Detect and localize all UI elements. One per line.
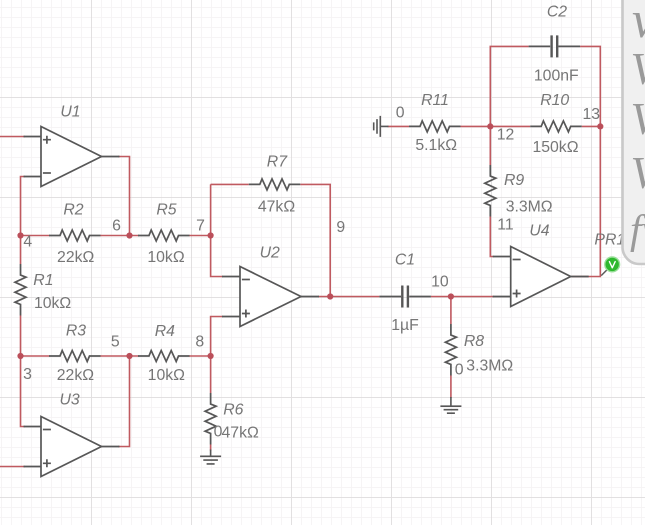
wire R4 to node 8 bbox=[189, 355, 211, 357]
svg-text:C1: C1 bbox=[395, 251, 415, 268]
junction node 7 bbox=[208, 232, 214, 238]
wire R6 to ground bbox=[210, 445, 212, 451]
wire ground to R11 bbox=[388, 125, 410, 127]
wire U3 output up to node 5 bbox=[118, 356, 130, 447]
wire U1 - input down to R1 top through node 4 bbox=[21, 177, 26, 265]
junction node 8 bbox=[208, 353, 214, 359]
svg-text:R1: R1 bbox=[33, 272, 53, 289]
svg-text:U2: U2 bbox=[260, 245, 280, 262]
op-amp U2 bbox=[222, 267, 319, 327]
wire R1 bottom to node 3 and down to U3 - input bbox=[21, 316, 26, 427]
wire R2 to node 6 to R5 bbox=[100, 235, 139, 237]
svg-text:8: 8 bbox=[195, 334, 204, 351]
resistor R1 bbox=[15, 264, 26, 316]
resistor R2 bbox=[49, 230, 101, 241]
svg-text:C2: C2 bbox=[547, 4, 567, 21]
svg-text:22kΩ: 22kΩ bbox=[57, 367, 94, 384]
svg-text:R10: R10 bbox=[540, 92, 569, 109]
resistor R9 bbox=[485, 165, 496, 217]
wire R5 to node 7 bbox=[189, 235, 211, 237]
svg-text:U3: U3 bbox=[59, 392, 79, 409]
ground below R8 bbox=[440, 397, 461, 413]
svg-text:22kΩ: 22kΩ bbox=[57, 249, 94, 266]
svg-text:5: 5 bbox=[111, 334, 120, 351]
capacitor C1 bbox=[379, 286, 431, 308]
svg-text:1µF: 1µF bbox=[391, 317, 419, 334]
wire node 12 up to C2 bbox=[490, 46, 528, 126]
junction node 6 bbox=[126, 232, 132, 238]
svg-text:R5: R5 bbox=[156, 201, 176, 218]
resistor R8 bbox=[445, 324, 456, 376]
svg-text:11: 11 bbox=[497, 217, 514, 234]
wire C2 to node 13 bbox=[580, 46, 600, 126]
wire R8 to ground bbox=[450, 376, 452, 399]
wire node 7 vertical down to U2 - input bbox=[211, 184, 223, 276]
svg-text:U4: U4 bbox=[529, 222, 549, 239]
svg-text:R2: R2 bbox=[63, 201, 83, 218]
svg-text:R4: R4 bbox=[155, 323, 175, 340]
svg-text:R7: R7 bbox=[267, 154, 288, 171]
ground at R11 input bbox=[374, 116, 389, 137]
wire R9 to U4 - input bbox=[490, 217, 493, 257]
wire R7 to node 9 vertical down to U2 output bbox=[300, 184, 330, 296]
svg-text:4: 4 bbox=[23, 233, 32, 250]
wire node 13 down to U4 output bbox=[572, 126, 600, 276]
op-amp U1 bbox=[24, 127, 120, 187]
side panel bbox=[623, 0, 645, 264]
ground below R6 bbox=[200, 450, 221, 464]
wire to U3 + input (left edge) bbox=[0, 466, 25, 468]
svg-text:100nF: 100nF bbox=[534, 68, 579, 85]
resistor R10 bbox=[530, 121, 582, 132]
op-amp U4 bbox=[493, 247, 589, 307]
svg-text:10kΩ: 10kΩ bbox=[147, 249, 184, 266]
svg-text:10: 10 bbox=[431, 274, 449, 291]
svg-text:6: 6 bbox=[112, 218, 121, 235]
svg-text:13: 13 bbox=[583, 106, 601, 123]
wire node 3 to R3 bbox=[21, 355, 51, 357]
svg-text:0: 0 bbox=[396, 105, 405, 122]
svg-text:10kΩ: 10kΩ bbox=[148, 367, 185, 384]
svg-text:R11: R11 bbox=[421, 92, 449, 109]
resistor R5 bbox=[138, 230, 190, 241]
wire R11 to node 12 bbox=[461, 125, 491, 127]
junction node 12 bbox=[487, 123, 493, 129]
junction node 10 bbox=[448, 293, 454, 299]
wire R10 to node 13 bbox=[582, 125, 601, 127]
junction node 4 bbox=[17, 232, 23, 238]
probe PR1 bbox=[601, 257, 619, 276]
svg-text:47kΩ: 47kΩ bbox=[222, 425, 259, 442]
svg-text:0: 0 bbox=[455, 361, 464, 378]
svg-text:R3: R3 bbox=[66, 322, 86, 339]
wire node 8 up to U2 + input bbox=[211, 317, 223, 357]
svg-text:9: 9 bbox=[336, 219, 345, 236]
resistor R7 bbox=[249, 179, 300, 190]
svg-text:150kΩ: 150kΩ bbox=[532, 139, 578, 156]
svg-text:V: V bbox=[631, 94, 645, 144]
svg-text:10kΩ: 10kΩ bbox=[34, 295, 71, 312]
wire U1 output to node 6 bbox=[118, 157, 130, 236]
svg-text:7: 7 bbox=[196, 218, 205, 235]
wire node 10 down to R8 bbox=[450, 297, 452, 325]
junction node 5 bbox=[126, 353, 132, 359]
wire node 8 down to R6 bbox=[210, 356, 212, 393]
wire R3 to node 5 to R4 bbox=[100, 355, 139, 357]
resistor R11 bbox=[409, 121, 461, 132]
svg-text:v: v bbox=[632, 0, 645, 49]
wire node 4 to R2 bbox=[21, 235, 51, 237]
resistor R4 bbox=[138, 351, 190, 362]
wire C1 through node 10 to U4 + input bbox=[431, 296, 494, 298]
resistor R6 bbox=[205, 393, 216, 445]
svg-text:fv: fv bbox=[630, 206, 645, 252]
wire node 12 down to R9 bbox=[489, 126, 491, 165]
op-amp U3 bbox=[24, 417, 120, 477]
svg-text:R8: R8 bbox=[464, 333, 484, 350]
svg-text:V: V bbox=[631, 44, 645, 94]
wire U2 output to C1 bbox=[318, 296, 379, 298]
junction node 3 bbox=[17, 353, 23, 359]
junction U2 output node 9 bbox=[327, 293, 333, 299]
svg-text:3.3MΩ: 3.3MΩ bbox=[466, 358, 513, 375]
svg-text:3: 3 bbox=[23, 366, 32, 383]
junction node 13 bbox=[597, 123, 603, 129]
svg-text:R6: R6 bbox=[223, 402, 243, 419]
wire node 12 to R10 bbox=[490, 125, 530, 127]
capacitor C2 bbox=[529, 35, 581, 57]
svg-text:5.1kΩ: 5.1kΩ bbox=[415, 137, 457, 154]
resistor R3 bbox=[49, 351, 101, 362]
svg-text:12: 12 bbox=[497, 127, 515, 144]
svg-text:R9: R9 bbox=[504, 172, 524, 189]
svg-text:PR1: PR1 bbox=[594, 231, 625, 248]
svg-text:V: V bbox=[631, 148, 645, 198]
wire to U1 + input (left edge) bbox=[0, 136, 25, 138]
svg-text:3.3MΩ: 3.3MΩ bbox=[506, 198, 553, 215]
svg-text:47kΩ: 47kΩ bbox=[258, 199, 295, 216]
wire node 7 up to R7 bbox=[211, 183, 249, 185]
svg-text:U1: U1 bbox=[60, 104, 80, 121]
